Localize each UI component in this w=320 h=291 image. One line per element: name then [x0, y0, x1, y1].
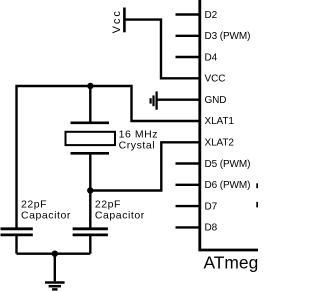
crystal Y1 16 MHz: [66, 123, 116, 154]
svg-text:D3 (PWM): D3 (PWM): [205, 31, 251, 42]
pin D5 (PWM): [176, 159, 251, 170]
pin XLAT1: [205, 116, 235, 127]
svg-text:D5 (PWM): D5 (PWM): [205, 159, 251, 170]
svg-text:D7: D7: [205, 201, 218, 212]
wire XTAL1 net: [17, 86, 199, 228]
capacitor C2 22pF: [73, 229, 108, 235]
wire GND net: [157, 98, 199, 100]
ground (GND pin, rotated): [151, 91, 157, 109]
pin D8: [176, 223, 218, 234]
wire crystal top stub: [89, 86, 91, 123]
junction node (crystal top): [87, 83, 93, 89]
pin D6 (PWM): [176, 180, 251, 191]
wire VCC net: [124, 20, 198, 79]
IC U1 ATmega body edge: [198, 0, 258, 250]
wire XTAL2 net: [90, 142, 198, 190]
wire capacitor C2 bottom stub: [89, 235, 91, 254]
label ATmeg (IC name, clipped): [204, 252, 269, 272]
wire crystal bottom stub: [89, 153, 91, 190]
svg-text:XLAT1: XLAT1: [205, 116, 235, 127]
pin D3 (PWM): [176, 31, 251, 42]
ground: [45, 254, 65, 290]
pin D2: [176, 10, 218, 21]
pin D4: [176, 52, 218, 63]
pin VCC: [205, 74, 226, 85]
label Capacitor (C1): [21, 209, 71, 221]
label 16 MHz: [119, 129, 158, 141]
wire ground rail: [17, 252, 91, 254]
svg-text:Crystal: Crystal: [119, 139, 156, 151]
svg-text:ATmega: ATmega: [204, 252, 259, 272]
svg-text:GND: GND: [205, 95, 227, 106]
svg-text:Capacitor: Capacitor: [21, 209, 71, 221]
svg-text:D6 (PWM): D6 (PWM): [205, 180, 251, 191]
label Capacitor (C2): [95, 209, 145, 221]
junction node (ground): [52, 251, 58, 257]
svg-text:D8: D8: [205, 223, 218, 234]
svg-text:VCC: VCC: [205, 74, 226, 85]
power symbol Vcc: [123, 8, 126, 33]
pin label fragment (right edge, D6 row): [256, 183, 258, 188]
svg-text:Capacitor: Capacitor: [95, 209, 145, 221]
pin D7: [176, 201, 218, 212]
pin label fragment (right edge, D7 row): [256, 202, 258, 208]
label Vcc: [111, 9, 123, 33]
label 22pF (C1): [21, 198, 47, 210]
junction node (crystal bottom): [87, 187, 93, 193]
svg-text:XLAT2: XLAT2: [205, 138, 235, 149]
label Crystal: [119, 139, 156, 151]
wire capacitor C1 bottom stub: [15, 235, 17, 254]
svg-text:Vcc: Vcc: [111, 9, 123, 33]
label 22pF (C2): [95, 198, 121, 210]
svg-text:D2: D2: [205, 10, 218, 21]
capacitor C1 22pF: [1, 229, 33, 235]
pin XLAT2: [205, 138, 235, 149]
svg-text:D4: D4: [205, 52, 218, 63]
wire capacitor C2 top stub: [89, 191, 91, 229]
pin GND: [205, 95, 227, 106]
